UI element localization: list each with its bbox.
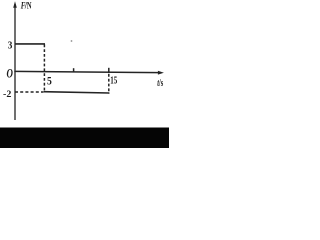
svg-text:15: 15 [110,75,117,87]
stray dot [71,40,73,42]
dashed vertical at t=15 [108,74,110,94]
svg-text:O: O [7,67,14,81]
F=3 line from t=0 to t=5 [15,43,45,45]
x-axis t [14,71,160,72]
dashed F=-2 from t=0 to t=5 [15,91,44,93]
tick at t=10 [73,68,75,72]
label F/N [20,0,26,10]
y-axis arrowhead [13,1,17,8]
svg-text:N: N [27,0,32,10]
svg-text:5: 5 [47,73,52,87]
dashed vertical at t=5 [43,44,45,92]
black bar [0,128,169,149]
svg-text:-2: -2 [3,89,11,100]
x-axis arrowhead [158,71,164,75]
F=-2 line from t=5 to t=15 [44,92,110,93]
tick at t=15 [108,68,110,73]
y-axis F [14,4,16,120]
label t/s [157,77,164,88]
svg-text:t/s: t/s [157,77,164,88]
svg-text:3: 3 [8,39,13,51]
